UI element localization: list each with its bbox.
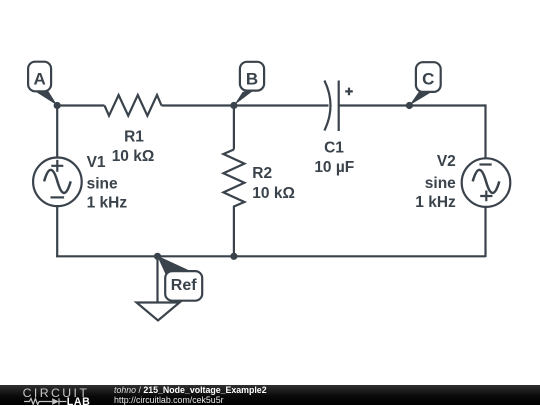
svg-text:B: B bbox=[246, 69, 258, 88]
capacitor C1 plus polarity mark bbox=[345, 88, 353, 96]
junction node A bbox=[54, 102, 61, 109]
svg-text:R2: R2 bbox=[252, 165, 272, 182]
node B flag box bbox=[240, 62, 264, 91]
node Ref flag pointer bbox=[157, 256, 191, 274]
ground symbol triangle bbox=[137, 303, 180, 321]
wire: bottom horizontal rail bbox=[56, 255, 485, 257]
svg-text:10 kΩ: 10 kΩ bbox=[112, 148, 155, 165]
junction R2 bottom bbox=[230, 253, 237, 260]
V1 minus mark (bottom) bbox=[51, 196, 65, 198]
node Ref flag box bbox=[165, 271, 202, 301]
svg-text:C: C bbox=[422, 69, 434, 88]
svg-text:1 kHz: 1 kHz bbox=[87, 195, 128, 212]
node C flag box bbox=[416, 62, 441, 92]
node C flag pointer bbox=[409, 91, 431, 105]
svg-text:10 µF: 10 µF bbox=[314, 159, 354, 176]
wire: V1 to bottom left corner bbox=[56, 206, 58, 257]
resistor R1 bbox=[105, 95, 162, 116]
svg-text:Ref: Ref bbox=[171, 277, 197, 294]
svg-text:10 kΩ: 10 kΩ bbox=[252, 185, 295, 202]
capacitor C1 straight plate bbox=[338, 81, 340, 132]
node A flag pointer bbox=[36, 90, 57, 105]
junction node C bbox=[406, 102, 413, 109]
wire: R1 to capacitor C1 through node B bbox=[162, 104, 329, 106]
svg-text:1 kHz: 1 kHz bbox=[415, 194, 456, 211]
wire: node A down to V1 bbox=[56, 104, 58, 158]
wire: C1 to top right corner through node C bbox=[339, 104, 486, 106]
svg-text:A: A bbox=[33, 69, 45, 88]
svg-text:sine: sine bbox=[425, 175, 456, 192]
V2 plus mark (bottom) bbox=[480, 191, 492, 202]
svg-text:V2: V2 bbox=[437, 153, 456, 170]
junction node Ref bbox=[154, 253, 161, 260]
node B flag pointer bbox=[234, 90, 254, 105]
junction node B bbox=[230, 102, 237, 109]
voltage source V2 body bbox=[462, 158, 511, 207]
wire: top right corner down to V2 bbox=[484, 104, 486, 158]
V1 plus mark (top) bbox=[51, 160, 63, 172]
svg-text:LAB: LAB bbox=[67, 396, 91, 406]
V1 sine wave bbox=[44, 170, 71, 193]
capacitor C1 curved plate bbox=[324, 81, 330, 131]
footer text bbox=[114, 385, 267, 405]
svg-text:V1: V1 bbox=[87, 154, 106, 171]
ground stem wire bbox=[156, 256, 158, 302]
V2 sine wave bbox=[473, 170, 500, 193]
wire: R2 down to bottom rail bbox=[233, 210, 235, 256]
resistor R2 bbox=[223, 150, 244, 211]
wire: V2 to bottom right corner bbox=[484, 207, 486, 257]
voltage source V1 body bbox=[33, 158, 82, 207]
wire: node B down to R2 bbox=[233, 106, 235, 150]
V2 minus mark (top) bbox=[480, 163, 492, 165]
node A flag box bbox=[28, 62, 51, 92]
svg-text:R1: R1 bbox=[124, 128, 144, 145]
wire: node A to resistor R1 (top left horizontal) bbox=[57, 104, 104, 106]
CircuitLab logo bbox=[0, 385, 110, 406]
svg-text:C1: C1 bbox=[324, 140, 344, 157]
svg-text:sine: sine bbox=[87, 175, 118, 192]
footer bar bbox=[0, 385, 540, 406]
